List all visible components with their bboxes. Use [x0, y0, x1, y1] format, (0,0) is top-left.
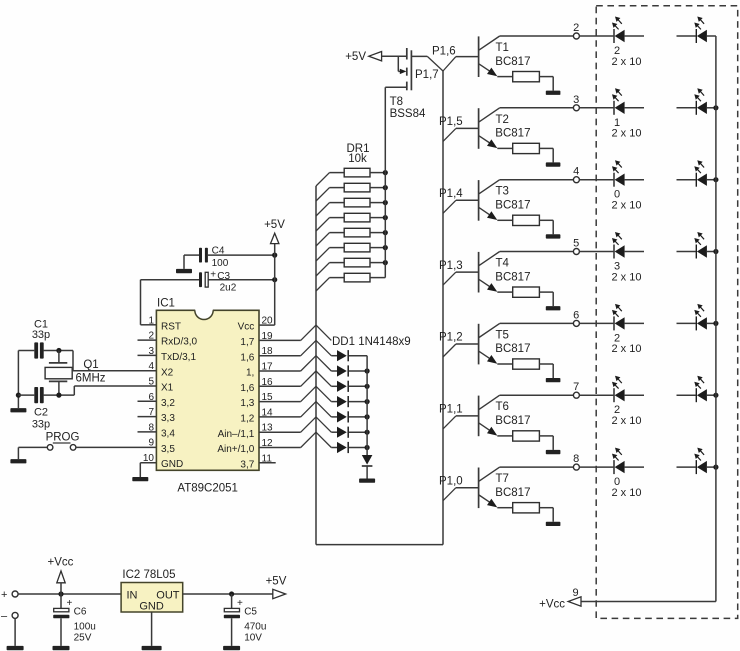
svg-text:2 x 10: 2 x 10	[612, 200, 642, 212]
svg-text:2 x 10: 2 x 10	[612, 56, 642, 68]
svg-text:X2: X2	[161, 367, 174, 378]
svg-text:P1,6: P1,6	[432, 46, 456, 58]
svg-text:7: 7	[573, 381, 579, 393]
svg-text:33p: 33p	[32, 419, 50, 431]
svg-text:P1,2: P1,2	[439, 332, 463, 344]
svg-text:10: 10	[143, 453, 155, 464]
svg-text:P1,4: P1,4	[439, 188, 463, 200]
svg-text:20: 20	[262, 316, 274, 327]
svg-text:BC817: BC817	[495, 343, 530, 355]
svg-text:BC817: BC817	[495, 487, 530, 499]
svg-text:1,6: 1,6	[240, 383, 254, 394]
svg-text:100: 100	[212, 258, 229, 269]
svg-text:1,7: 1,7	[240, 337, 254, 348]
svg-text:10V: 10V	[244, 632, 262, 643]
svg-text:BC817: BC817	[495, 415, 530, 427]
svg-text:Q1: Q1	[83, 359, 98, 371]
svg-text:P1,5: P1,5	[439, 116, 463, 128]
svg-text:T5: T5	[496, 329, 509, 341]
svg-text:IC1: IC1	[157, 298, 175, 310]
svg-text:C5: C5	[244, 607, 257, 618]
svg-text:+: +	[67, 598, 73, 609]
svg-text:BSS84: BSS84	[390, 108, 426, 120]
svg-text:4: 4	[148, 361, 154, 372]
svg-text:Ain–/1,1: Ain–/1,1	[218, 429, 255, 440]
svg-text:T7: T7	[496, 473, 509, 485]
svg-text:+: +	[1, 589, 7, 601]
svg-text:2 x 10: 2 x 10	[612, 343, 642, 355]
svg-text:IN: IN	[127, 589, 138, 601]
svg-text:C2: C2	[34, 407, 48, 419]
svg-text:RST: RST	[161, 321, 181, 332]
svg-text:25V: 25V	[74, 632, 92, 643]
svg-text:4: 4	[573, 166, 579, 178]
svg-text:33p: 33p	[32, 329, 50, 341]
svg-text:2u2: 2u2	[220, 283, 237, 294]
svg-text:10k: 10k	[348, 153, 367, 165]
svg-text:AT89C2051: AT89C2051	[177, 483, 238, 495]
svg-text:9: 9	[573, 587, 579, 599]
svg-text:P1,7: P1,7	[415, 69, 439, 81]
svg-text:BC817: BC817	[495, 271, 530, 283]
svg-text:T6: T6	[496, 401, 509, 413]
svg-text:P1,1: P1,1	[439, 404, 463, 416]
svg-text:T4: T4	[496, 258, 510, 270]
svg-text:X1: X1	[161, 383, 174, 394]
svg-text:C4: C4	[212, 245, 225, 256]
svg-text:+5V: +5V	[264, 219, 285, 231]
svg-text:+Vcc: +Vcc	[48, 557, 74, 569]
svg-text:T2: T2	[496, 114, 509, 126]
svg-text:3,5: 3,5	[161, 444, 175, 455]
svg-text:PROG: PROG	[46, 431, 80, 443]
svg-text:+5V: +5V	[345, 51, 366, 63]
svg-text:C6: C6	[74, 607, 87, 618]
svg-text:100u: 100u	[74, 622, 96, 633]
svg-text:1: 1	[148, 315, 154, 326]
svg-text:9: 9	[148, 438, 154, 449]
svg-text:C3: C3	[217, 271, 230, 282]
svg-text:1,6: 1,6	[240, 352, 254, 363]
svg-text:P1,0: P1,0	[439, 475, 463, 487]
svg-text:2: 2	[573, 22, 579, 34]
svg-text:BC817: BC817	[495, 200, 530, 212]
svg-text:P1,3: P1,3	[439, 260, 463, 272]
svg-text:T3: T3	[496, 186, 509, 198]
svg-text:–: –	[1, 611, 8, 623]
svg-text:6: 6	[573, 309, 579, 321]
svg-text:+Vcc: +Vcc	[539, 599, 565, 611]
svg-text:GND: GND	[139, 600, 164, 612]
svg-text:Ain+/1,0: Ain+/1,0	[217, 444, 254, 455]
svg-text:Vcc: Vcc	[238, 322, 255, 333]
svg-text:2 x 10: 2 x 10	[612, 487, 642, 499]
svg-text:RxD/3,0: RxD/3,0	[161, 337, 198, 348]
svg-text:2 x 10: 2 x 10	[612, 415, 642, 427]
svg-text:BC817: BC817	[495, 56, 530, 68]
svg-text:IC2 78L05: IC2 78L05	[122, 569, 175, 581]
svg-text:2 x 10: 2 x 10	[612, 271, 642, 283]
svg-text:5: 5	[573, 238, 579, 250]
svg-text:1,3: 1,3	[240, 398, 254, 409]
svg-text:DD1 1N4148x9: DD1 1N4148x9	[332, 336, 411, 348]
svg-text:1,: 1,	[246, 368, 254, 379]
svg-text:2 x 10: 2 x 10	[612, 128, 642, 140]
svg-text:3: 3	[573, 94, 579, 106]
svg-text:3,7: 3,7	[240, 459, 254, 470]
svg-text:6MHz: 6MHz	[75, 373, 105, 385]
svg-text:470u: 470u	[244, 622, 266, 633]
svg-text:1,2: 1,2	[240, 414, 254, 425]
svg-text:+: +	[237, 598, 243, 609]
svg-text:3,2: 3,2	[161, 398, 175, 409]
svg-text:GND: GND	[161, 459, 183, 470]
svg-text:+: +	[210, 270, 216, 281]
svg-text:3,4: 3,4	[161, 429, 175, 440]
svg-text:T8: T8	[390, 96, 403, 108]
svg-text:T1: T1	[496, 42, 509, 54]
svg-text:5: 5	[148, 377, 154, 388]
svg-text:+5V: +5V	[266, 576, 287, 588]
svg-text:3,3: 3,3	[161, 413, 175, 424]
svg-text:TxD/3,1: TxD/3,1	[161, 352, 196, 363]
svg-text:8: 8	[573, 453, 579, 465]
svg-text:BC817: BC817	[495, 128, 530, 140]
